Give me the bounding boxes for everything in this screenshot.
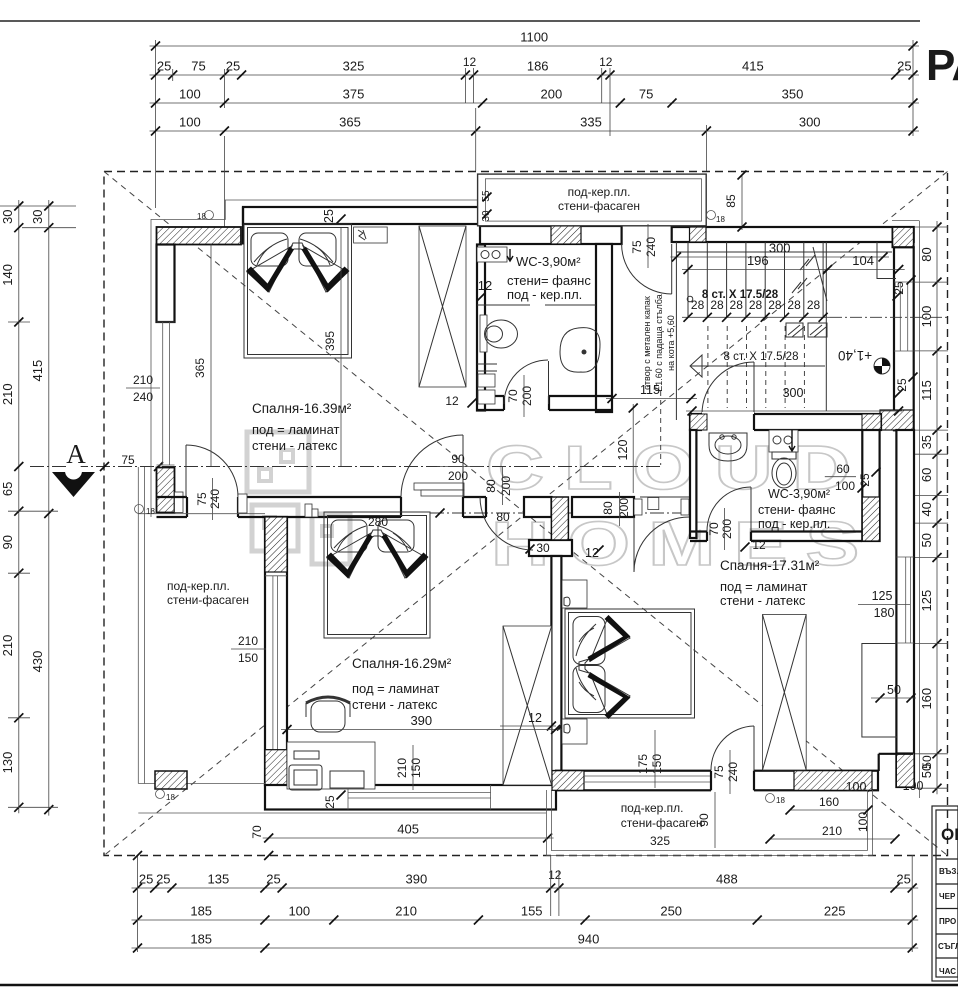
svg-text:60: 60 (919, 468, 934, 482)
svg-text:185: 185 (190, 932, 212, 947)
top dimension row 1100 (155, 40, 157, 136)
svg-text:115: 115 (919, 380, 934, 401)
wardrobe3 (763, 615, 807, 771)
porch hatch post bottom (155, 771, 187, 789)
svg-text:415: 415 (742, 59, 764, 74)
bed3 (565, 609, 695, 718)
svg-text:12: 12 (528, 711, 542, 725)
WC2 sink (709, 433, 747, 461)
svg-text:100: 100 (288, 904, 310, 919)
svg-text:под-кер.пл.: под-кер.пл. (621, 801, 684, 815)
svg-text:120: 120 (616, 440, 630, 461)
svg-text:60: 60 (836, 462, 850, 476)
west window 210/240 (157, 322, 175, 465)
hatch segment WC1 north (551, 226, 581, 244)
shelf in bedroom1 near door (414, 483, 464, 490)
WC2 north wall (690, 414, 881, 430)
svg-text:85: 85 (724, 194, 738, 208)
svg-text:8 ст. X 17.5/28: 8 ст. X 17.5/28 (724, 351, 799, 363)
svg-text:300: 300 (799, 115, 821, 130)
85 dim right of terrace (741, 175, 743, 230)
svg-text:30: 30 (0, 210, 15, 224)
bedroom3 south hatch pier left (552, 771, 584, 791)
svg-text:210: 210 (395, 758, 409, 778)
svg-text:390: 390 (406, 872, 428, 887)
svg-text:75: 75 (191, 59, 205, 74)
jamb steps bedroom2 NW (305, 504, 312, 517)
WC2 washer (769, 430, 798, 452)
east wall hatch at corridor (880, 410, 913, 430)
WC1 shelf lines (477, 304, 530, 306)
svg-text:под = ламинат: под = ламинат (252, 422, 340, 437)
east wall stairs (894, 247, 914, 430)
svg-text:90: 90 (451, 452, 465, 466)
svg-text:50: 50 (887, 683, 901, 697)
svg-text:12: 12 (599, 55, 613, 69)
terrace1 outline (478, 174, 707, 226)
bottom dimension row 2 (132, 919, 919, 921)
svg-text:200: 200 (520, 386, 534, 406)
bedroom2 south window (348, 785, 491, 810)
bedroom2 west wall (265, 517, 287, 785)
svg-text:стени - латекс: стени - латекс (352, 697, 438, 712)
dim 405 (263, 837, 554, 839)
svg-text:365: 365 (339, 115, 361, 130)
svg-text:ЧАС: ЧАС (939, 967, 956, 976)
svg-text:200: 200 (720, 519, 734, 539)
bedroom2/3 divider wall (551, 556, 561, 771)
door jamb (175, 492, 184, 513)
west wall hatch below window (157, 468, 175, 513)
bedroom3 south door arc (753, 726, 755, 771)
svg-text:Е1.60 с падаща стълба: Е1.60 с падаща стълба (654, 294, 664, 392)
svg-text:430: 430 (30, 651, 45, 673)
svg-text:75: 75 (121, 453, 135, 467)
svg-text:55: 55 (481, 190, 492, 202)
svg-text:28: 28 (787, 298, 801, 312)
svg-text:100: 100 (179, 87, 201, 102)
bed2 bow Vs (326, 534, 373, 579)
svg-text:25: 25 (156, 872, 170, 887)
divider 12 dim (500, 725, 556, 727)
svg-text:25: 25 (322, 209, 336, 223)
bedroom3 east window 125/180 (898, 557, 912, 643)
svg-text:90: 90 (697, 813, 711, 827)
WC1 east wall (596, 244, 612, 412)
svg-text:375: 375 (343, 87, 365, 102)
svg-text:стени-фасаген: стени-фасаген (558, 199, 640, 213)
svg-text:отвор с метален капак: отвор с метален капак (642, 296, 652, 390)
svg-text:WC-3,90м²: WC-3,90м² (768, 487, 830, 501)
watermark text CLOUD HOMES (486, 434, 878, 579)
svg-text:+1,40: +1,40 (838, 348, 872, 363)
svg-text:18: 18 (166, 793, 175, 802)
north wall WC1 (480, 226, 622, 244)
svg-text:1100: 1100 (520, 30, 548, 45)
stair opening dashed edge (660, 391, 662, 465)
svg-text:под-кер.пл.: под-кер.пл. (167, 579, 230, 593)
svg-text:240: 240 (644, 237, 658, 257)
svg-text:18: 18 (716, 215, 725, 224)
svg-text:Спалня-17.31м²: Спалня-17.31м² (720, 558, 820, 573)
bedroom3 entry wall segment (572, 497, 634, 517)
svg-text:186: 186 (527, 59, 549, 74)
svg-text:70: 70 (506, 389, 520, 403)
stair walk arrow (691, 365, 825, 367)
svg-text:75: 75 (195, 492, 209, 506)
svg-text:ОБ: ОБ (941, 825, 958, 844)
door bedroom1 west leaf+arc (185, 445, 187, 497)
bedroom2 west hatch lower (265, 750, 287, 786)
bedroom3 south window (584, 776, 711, 782)
svg-text:150: 150 (409, 758, 423, 778)
svg-text:25: 25 (323, 795, 337, 809)
stair landing line (676, 251, 892, 253)
wardrobe2 (503, 626, 552, 785)
stair break diagonal (813, 247, 827, 301)
corridor axis dash-dot (430, 512, 694, 514)
svg-text:25: 25 (157, 59, 171, 74)
svg-text:РА: РА (926, 41, 958, 90)
WC1 toilet (480, 315, 487, 352)
svg-text:стени - латекс: стени - латекс (720, 593, 806, 608)
svg-text:25: 25 (266, 872, 280, 887)
bedroom3 south wall (556, 771, 878, 791)
west wall upper segment (157, 245, 175, 323)
section marker A (52, 472, 95, 497)
sheet bottom border line (0, 984, 958, 987)
north wall stairs (672, 227, 914, 242)
svg-text:240: 240 (726, 762, 740, 782)
bottom dimension row 1 (132, 887, 919, 889)
bed2 (324, 512, 430, 638)
svg-text:160: 160 (819, 795, 839, 809)
svg-text:210: 210 (822, 824, 842, 838)
svg-text:115: 115 (640, 383, 660, 397)
right chain guides (915, 226, 948, 228)
svg-text:25: 25 (226, 59, 240, 74)
svg-text:100: 100 (179, 115, 201, 130)
svg-text:25: 25 (896, 872, 910, 887)
right dimension chain (936, 221, 938, 794)
hatch segment stairs north-left (690, 227, 707, 242)
stair dims 196 104 (682, 269, 905, 271)
svg-text:под - кер.пл.: под - кер.пл. (758, 517, 830, 531)
svg-text:25: 25 (892, 281, 906, 295)
svg-text:12: 12 (548, 868, 562, 882)
WC2 door arc (707, 487, 751, 531)
svg-text:300: 300 (783, 386, 804, 400)
svg-text:80: 80 (484, 479, 498, 493)
bedroom3 east hatch low (896, 753, 914, 787)
svg-text:100: 100 (846, 780, 867, 794)
svg-text:12: 12 (445, 394, 459, 408)
svg-text:90: 90 (0, 535, 15, 549)
WC1 south wall (477, 396, 612, 410)
dashed diagonal TL-BR (104, 172, 948, 856)
section line A dash-dot (30, 466, 660, 468)
svg-text:на кота +5,60: на кота +5,60 (666, 315, 676, 371)
svg-text:18: 18 (776, 796, 785, 805)
svg-text:стени= фаянс: стени= фаянс (507, 273, 591, 288)
svg-text:75: 75 (630, 240, 644, 254)
alcove east (862, 644, 898, 738)
watermark logo (247, 432, 350, 564)
stair treads lower dashed (708, 326, 805, 408)
stair dim 300 top (670, 256, 889, 258)
dim 390 (281, 729, 562, 731)
nightstand (354, 227, 388, 243)
svg-text:80: 80 (601, 501, 615, 515)
svg-text:ПРО: ПРО (939, 917, 956, 926)
left dimension chain outer (48, 200, 50, 816)
svg-text:940: 940 (578, 932, 600, 947)
svg-text:100: 100 (835, 479, 855, 493)
svg-text:стени - латекс: стени - латекс (252, 438, 338, 453)
WC1 west wall (477, 245, 485, 411)
svg-text:28: 28 (807, 298, 821, 312)
WC1 SW cabinet (478, 374, 495, 387)
sheet top border line (0, 20, 920, 22)
east window stairs 100 (896, 282, 912, 351)
svg-text:25: 25 (139, 872, 153, 887)
svg-text:СЪГЛ: СЪГЛ (938, 942, 958, 951)
svg-text:150: 150 (238, 651, 258, 665)
bedroom2 west window 210/150 (267, 576, 285, 750)
WC2 east wall (862, 430, 879, 541)
svg-text:200: 200 (448, 469, 468, 483)
WC1 door arc (548, 361, 550, 404)
svg-text:365: 365 (193, 358, 207, 378)
svg-text:104: 104 (852, 253, 874, 268)
tread tick line (682, 316, 830, 318)
svg-text:125: 125 (872, 589, 893, 603)
svg-text:488: 488 (716, 872, 738, 887)
bed3 bow Vs (588, 615, 631, 662)
niche wall + hatch pier (524, 497, 552, 517)
svg-text:210: 210 (0, 635, 15, 657)
svg-text:Спалня-16.39м²: Спалня-16.39м² (252, 401, 352, 416)
thin facade offset line east (919, 221, 921, 798)
svg-text:30: 30 (30, 210, 45, 224)
svg-text:80: 80 (496, 510, 510, 524)
stair east notch (877, 242, 896, 279)
svg-text:100: 100 (919, 306, 934, 328)
svg-text:180: 180 (874, 606, 895, 620)
svg-text:под - кер.пл.: под - кер.пл. (507, 287, 582, 302)
svg-text:12: 12 (752, 538, 766, 552)
wardrobe1 (419, 226, 466, 387)
WC2 south wall (690, 532, 862, 542)
svg-text:12: 12 (463, 55, 477, 69)
svg-text:210: 210 (238, 634, 258, 648)
svg-text:70: 70 (707, 522, 721, 536)
svg-text:стени- фаянс: стени- фаянс (758, 503, 835, 517)
svg-text:75: 75 (712, 765, 726, 779)
svg-text:ВЪЗ.: ВЪЗ. (939, 867, 958, 876)
dashed diagonal TR-BL (104, 172, 948, 856)
nightstands bedroom3 (562, 580, 587, 608)
WC2 west wall (690, 430, 696, 538)
top dimension row 3 (150, 102, 920, 104)
svg-text:140: 140 (0, 264, 15, 286)
top dimension row 2 (150, 74, 920, 76)
porch outline thin (138, 467, 265, 784)
svg-text:WC-3,90м²: WC-3,90м² (516, 254, 581, 269)
bedroom2 west hatch upper (265, 517, 287, 572)
bedroom3 west door leaf+arc (633, 517, 635, 572)
svg-text:395: 395 (323, 331, 337, 351)
left dimension chain inner (18, 200, 20, 813)
bottom dimension row 3 (132, 947, 919, 949)
svg-text:50: 50 (920, 755, 934, 769)
svg-text:160: 160 (919, 688, 934, 710)
svg-text:70: 70 (250, 825, 264, 839)
svg-text:250: 250 (660, 904, 682, 919)
svg-text:335: 335 (580, 115, 602, 130)
svg-text:18: 18 (146, 507, 155, 516)
svg-text:135: 135 (208, 872, 230, 887)
stair door arc (702, 362, 754, 414)
svg-text:240: 240 (133, 390, 153, 404)
svg-text:75: 75 (639, 87, 653, 102)
svg-text:210: 210 (395, 904, 417, 919)
landing element (786, 323, 827, 337)
bed1 (244, 224, 352, 358)
terrace2 outline (546, 790, 872, 856)
chair (311, 701, 345, 732)
terrace door opening + arc (622, 244, 672, 294)
svg-text:Спалня-16.29м²: Спалня-16.29м² (352, 656, 452, 671)
svg-text:200: 200 (499, 476, 513, 496)
bedroom2 entry door arc (480, 497, 533, 550)
thin facade offset south (138, 812, 546, 814)
svg-text:390: 390 (410, 713, 432, 728)
svg-text:155: 155 (521, 904, 543, 919)
svg-text:150: 150 (650, 754, 664, 774)
svg-text:200: 200 (541, 87, 563, 102)
svg-text:175: 175 (636, 754, 650, 774)
door bedroom1 main leaf+arc (462, 435, 464, 497)
svg-text:405: 405 (397, 822, 419, 837)
WC2 toilet (772, 452, 796, 459)
svg-text:125: 125 (919, 590, 934, 612)
svg-text:35: 35 (919, 435, 934, 449)
svg-text:325: 325 (650, 834, 670, 848)
hatch corner NE (892, 227, 913, 247)
svg-text:196: 196 (747, 253, 769, 268)
svg-text:12: 12 (478, 278, 492, 293)
svg-text:30: 30 (536, 541, 550, 555)
svg-text:под-кер.пл.: под-кер.пл. (568, 185, 631, 199)
svg-text:185: 185 (190, 904, 212, 919)
svg-text:ЧЕР: ЧЕР (939, 892, 956, 901)
svg-text:300: 300 (769, 241, 791, 256)
svg-text:325: 325 (343, 59, 365, 74)
bed1 bow Vs (246, 247, 294, 293)
svg-text:280: 280 (368, 515, 388, 529)
svg-text:225: 225 (824, 904, 846, 919)
title block (932, 806, 958, 981)
svg-text:100: 100 (856, 812, 870, 832)
svg-text:350: 350 (782, 87, 804, 102)
bedroom3 south hatch right (794, 771, 872, 791)
svg-text:40: 40 (919, 502, 934, 516)
bedroom1 south wall band (157, 497, 487, 517)
svg-text:A: A (66, 439, 86, 469)
bedroom3 east wall (896, 430, 914, 787)
svg-text:240: 240 (208, 489, 222, 509)
svg-text:под = ламинат: под = ламинат (720, 579, 808, 594)
svg-text:25: 25 (897, 59, 911, 74)
svg-text:210: 210 (133, 373, 153, 387)
svg-text:18: 18 (197, 212, 206, 221)
bedroom3 south door gap (711, 769, 754, 792)
stair hall west edge (675, 242, 677, 420)
svg-text:50: 50 (919, 533, 934, 547)
WC1 tub (560, 328, 600, 373)
desk (287, 742, 375, 789)
svg-text:8 ст. X 17.5/28: 8 ст. X 17.5/28 (702, 289, 779, 301)
svg-text:80: 80 (919, 247, 934, 261)
stair treads upper (688, 242, 823, 317)
top dimension row 4 (150, 130, 920, 132)
door jamb right (238, 494, 247, 513)
thin facade offset line NW (151, 200, 480, 517)
svg-text:стени-фасаген: стени-фасаген (621, 816, 703, 830)
svg-text:стени-фасаген: стени-фасаген (167, 593, 249, 607)
dashed slab outline (104, 172, 948, 856)
bedroom2 south wall (265, 785, 556, 810)
svg-text:65: 65 (0, 482, 15, 496)
svg-text:под = ламинат: под = ламинат (352, 681, 440, 696)
north wall hatch top-left corner (157, 227, 242, 245)
WC1 corner shelf with circles (477, 247, 507, 262)
left guide lines (0, 205, 76, 207)
svg-text:415: 415 (30, 360, 45, 382)
svg-text:130: 130 (0, 752, 15, 774)
svg-text:210: 210 (0, 383, 15, 405)
north wall bedroom1 bay (243, 207, 480, 224)
